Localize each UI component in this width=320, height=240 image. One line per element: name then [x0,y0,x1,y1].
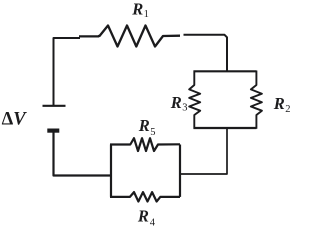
wire R5R4 left side [110,145,112,197]
svg-text:R: R [137,206,149,225]
resistor R1 [98,26,180,47]
resistor R3 [189,71,200,129]
wire battery negative to R5R4 box [54,131,112,176]
svg-text:R: R [138,116,150,135]
svg-text:2: 2 [285,104,290,115]
wire R5R4 right side [179,145,181,197]
svg-text:3: 3 [182,103,187,114]
svg-text:4: 4 [150,217,156,228]
svg-text:R: R [273,94,285,113]
svg-text:R: R [131,0,143,18]
battery ΔV top plate [43,105,66,107]
resistor R4 [110,192,180,201]
wire top-right with corner [184,35,228,72]
wire R3R2 top rail [194,70,257,72]
wire R3R2 bottom rail [194,127,257,129]
svg-text:1: 1 [144,9,149,20]
wire center vertical below R3R2 [181,128,227,174]
wire top-left corner [54,38,81,106]
svg-text:R: R [170,93,182,112]
svg-text:5: 5 [150,127,155,138]
wire center vertical from top junction [226,62,228,72]
resistor R2 [251,71,262,129]
battery ΔV bottom plate [47,129,59,133]
svg-text:ΔV: ΔV [2,109,28,129]
resistor R5 [110,138,180,151]
wire to R1 left lead [79,35,99,37]
